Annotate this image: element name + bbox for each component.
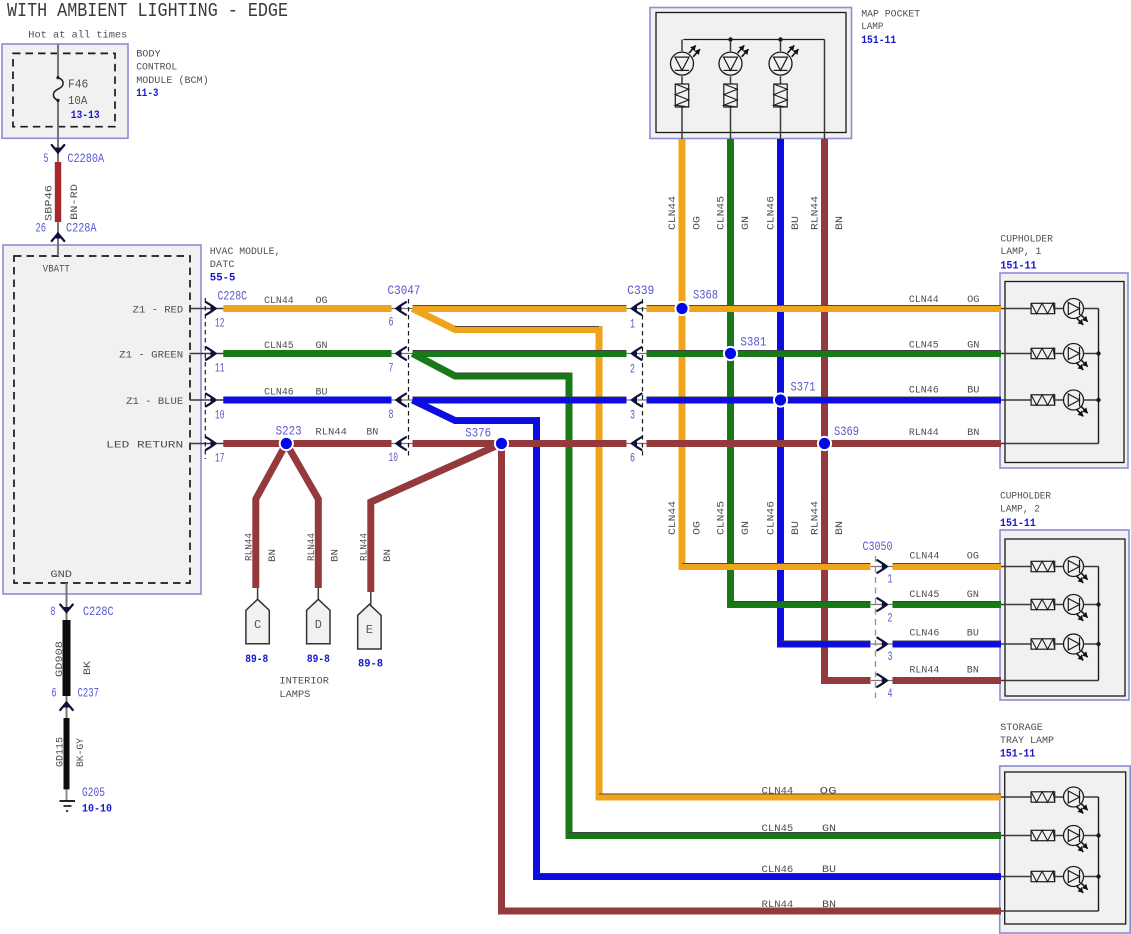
svg-text:RLN44: RLN44 <box>909 664 939 676</box>
svg-text:5: 5 <box>44 152 49 166</box>
svg-text:LAMP, 1: LAMP, 1 <box>1000 246 1041 258</box>
svg-text:S376: S376 <box>465 427 491 441</box>
svg-text:BK: BK <box>82 660 94 675</box>
svg-text:89-8: 89-8 <box>307 654 330 666</box>
svg-text:WITH AMBIENT LIGHTING - EDGE: WITH AMBIENT LIGHTING - EDGE <box>7 0 288 22</box>
svg-text:C339: C339 <box>627 284 654 298</box>
svg-text:Z1 - RED: Z1 - RED <box>133 304 184 316</box>
svg-text:BN: BN <box>366 426 378 438</box>
svg-text:GD908: GD908 <box>54 641 66 677</box>
svg-text:S223: S223 <box>276 425 302 439</box>
svg-text:10: 10 <box>389 451 399 465</box>
svg-text:CLN44: CLN44 <box>762 785 794 797</box>
svg-text:CLN45: CLN45 <box>716 501 728 535</box>
svg-text:RLN44: RLN44 <box>358 533 370 561</box>
svg-text:SBP46: SBP46 <box>43 185 55 221</box>
svg-text:BN: BN <box>834 521 846 535</box>
svg-text:MAP POCKET: MAP POCKET <box>861 8 920 20</box>
svg-text:GN: GN <box>967 340 979 352</box>
svg-text:6: 6 <box>630 452 635 466</box>
svg-text:BK-GY: BK-GY <box>75 737 87 767</box>
svg-text:BN: BN <box>967 427 979 439</box>
svg-text:151-11: 151-11 <box>861 35 896 47</box>
svg-text:C228C: C228C <box>218 290 248 304</box>
svg-text:S371: S371 <box>791 381 816 395</box>
svg-text:OG: OG <box>692 216 704 230</box>
svg-text:3: 3 <box>888 650 893 664</box>
svg-text:BU: BU <box>316 386 328 398</box>
svg-text:6: 6 <box>389 316 394 330</box>
svg-text:C3050: C3050 <box>863 540 893 554</box>
svg-text:CLN46: CLN46 <box>909 385 939 397</box>
svg-text:CUPHOLDER: CUPHOLDER <box>1000 234 1053 246</box>
svg-text:S381: S381 <box>740 336 766 350</box>
svg-text:BU: BU <box>967 385 979 397</box>
svg-text:TRAY LAMP: TRAY LAMP <box>1000 735 1054 747</box>
svg-text:3: 3 <box>630 409 635 423</box>
svg-text:8: 8 <box>51 605 56 619</box>
svg-text:CLN46: CLN46 <box>766 501 778 535</box>
svg-text:GN: GN <box>740 216 752 230</box>
svg-text:BU: BU <box>822 864 836 876</box>
svg-text:OG: OG <box>316 295 328 307</box>
svg-text:D: D <box>315 618 322 632</box>
svg-text:C: C <box>254 618 261 632</box>
svg-text:BN: BN <box>834 216 846 230</box>
svg-text:6: 6 <box>52 687 57 701</box>
svg-text:LED RETURN: LED RETURN <box>106 439 183 451</box>
svg-text:55-5: 55-5 <box>210 273 236 285</box>
svg-text:17: 17 <box>215 452 225 466</box>
svg-text:CLN45: CLN45 <box>716 196 728 230</box>
svg-text:CONTROL: CONTROL <box>136 62 177 74</box>
svg-text:RLN44: RLN44 <box>306 533 318 561</box>
svg-text:BU: BU <box>967 627 979 639</box>
svg-text:S369: S369 <box>834 425 859 439</box>
svg-text:LAMPS: LAMPS <box>279 689 310 701</box>
svg-text:C3047: C3047 <box>388 284 421 298</box>
svg-text:8: 8 <box>389 408 394 422</box>
svg-text:CLN44: CLN44 <box>909 550 939 562</box>
svg-text:Z1 - GREEN: Z1 - GREEN <box>119 349 183 361</box>
svg-text:CLN44: CLN44 <box>909 294 939 306</box>
svg-text:BN: BN <box>329 549 341 562</box>
svg-text:OG: OG <box>967 294 979 306</box>
svg-text:LAMP: LAMP <box>861 21 883 33</box>
svg-text:RLN44: RLN44 <box>909 427 939 439</box>
svg-text:4: 4 <box>888 687 893 701</box>
svg-text:GN: GN <box>316 340 328 352</box>
svg-text:Hot at all times: Hot at all times <box>28 29 127 41</box>
svg-text:10: 10 <box>215 409 225 423</box>
svg-text:GND: GND <box>50 569 72 581</box>
svg-text:S368: S368 <box>693 289 718 303</box>
svg-text:12: 12 <box>215 317 225 331</box>
svg-text:VBATT: VBATT <box>43 263 70 275</box>
svg-text:OG: OG <box>820 785 837 797</box>
svg-text:BODY: BODY <box>136 48 161 60</box>
svg-text:CLN45: CLN45 <box>762 823 794 835</box>
svg-text:LAMP, 2: LAMP, 2 <box>1000 504 1040 516</box>
svg-text:Z1 - BLUE: Z1 - BLUE <box>126 396 183 408</box>
svg-text:GN: GN <box>967 589 979 601</box>
svg-text:BN: BN <box>822 899 836 911</box>
svg-text:STORAGE: STORAGE <box>1000 722 1043 734</box>
svg-text:11: 11 <box>215 362 225 376</box>
svg-text:CLN44: CLN44 <box>264 295 294 307</box>
svg-text:BN: BN <box>967 664 979 676</box>
svg-text:C228A: C228A <box>66 222 97 236</box>
svg-text:RLN44: RLN44 <box>810 501 822 535</box>
svg-text:26: 26 <box>36 222 47 236</box>
svg-text:RLN44: RLN44 <box>762 899 794 911</box>
svg-text:CLN45: CLN45 <box>264 340 294 352</box>
svg-text:2: 2 <box>888 612 893 626</box>
svg-text:RLN44: RLN44 <box>315 426 347 438</box>
svg-text:C237: C237 <box>78 687 100 701</box>
svg-text:13-13: 13-13 <box>71 110 100 122</box>
svg-text:151-11: 151-11 <box>1000 748 1036 760</box>
svg-text:151-11: 151-11 <box>1000 518 1036 530</box>
svg-text:GN: GN <box>822 823 836 835</box>
svg-text:BU: BU <box>790 521 802 535</box>
svg-text:89-8: 89-8 <box>245 654 268 666</box>
svg-text:BU: BU <box>790 216 802 230</box>
svg-text:10-10: 10-10 <box>82 804 112 816</box>
svg-text:OG: OG <box>967 550 979 562</box>
svg-text:CLN46: CLN46 <box>766 196 778 230</box>
svg-text:CLN46: CLN46 <box>264 386 294 398</box>
svg-text:F46: F46 <box>68 78 88 91</box>
svg-text:1: 1 <box>630 318 635 332</box>
svg-text:BN: BN <box>382 549 394 562</box>
svg-text:DATC: DATC <box>210 259 235 271</box>
svg-text:OG: OG <box>692 521 704 535</box>
svg-text:INTERIOR: INTERIOR <box>279 676 329 688</box>
svg-text:G205: G205 <box>82 786 105 800</box>
svg-text:CLN46: CLN46 <box>909 627 939 639</box>
svg-text:HVAC MODULE,: HVAC MODULE, <box>210 246 281 258</box>
svg-text:GD115: GD115 <box>54 737 66 767</box>
svg-text:C2280A: C2280A <box>67 152 104 166</box>
svg-text:CLN44: CLN44 <box>667 196 679 230</box>
svg-text:RLN44: RLN44 <box>810 196 822 230</box>
svg-text:CLN45: CLN45 <box>909 589 939 601</box>
svg-text:CLN46: CLN46 <box>762 864 794 876</box>
svg-text:MODULE (BCM): MODULE (BCM) <box>136 75 209 87</box>
svg-text:CLN44: CLN44 <box>667 501 679 535</box>
svg-text:89-8: 89-8 <box>358 659 383 671</box>
svg-text:RLN44: RLN44 <box>243 533 255 561</box>
svg-text:11-3: 11-3 <box>136 88 159 100</box>
svg-text:CUPHOLDER: CUPHOLDER <box>1000 491 1052 503</box>
svg-text:CLN45: CLN45 <box>909 340 939 352</box>
svg-text:C228C: C228C <box>83 605 114 619</box>
svg-text:10A: 10A <box>68 95 87 108</box>
svg-text:2: 2 <box>630 363 635 377</box>
svg-text:GN: GN <box>740 521 752 535</box>
svg-text:E: E <box>366 623 373 637</box>
svg-text:151-11: 151-11 <box>1000 261 1037 273</box>
svg-text:BN: BN <box>267 549 279 562</box>
svg-text:1: 1 <box>888 573 893 587</box>
svg-text:7: 7 <box>389 362 394 376</box>
svg-text:BN-RD: BN-RD <box>69 184 81 220</box>
